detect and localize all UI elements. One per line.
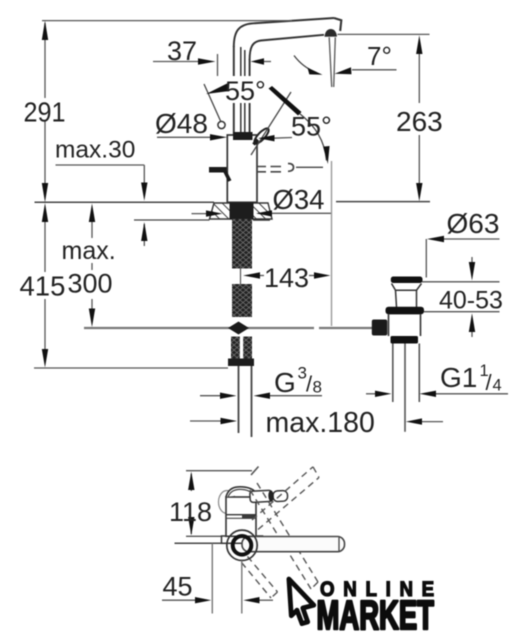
dimension 40-53	[422, 257, 500, 337]
dimension 45	[162, 599, 273, 601]
svg-text:45: 45	[163, 572, 193, 602]
threaded shank lower segment	[232, 284, 252, 317]
dimension 37	[153, 54, 271, 76]
dimension 143	[258, 275, 316, 277]
dimension max.180	[190, 420, 443, 423]
drain tailpipe	[392, 344, 394, 403]
side view shank extension lines	[212, 543, 242, 613]
svg-text:G: G	[274, 367, 296, 398]
svg-text:max.: max.	[62, 237, 116, 265]
dimension 291 (left vertical)	[42, 21, 292, 185]
faucet body (front view)	[227, 135, 257, 202]
svg-text:263: 263	[396, 106, 443, 137]
side view spout stub	[250, 489, 288, 503]
dimension Ø34	[192, 212, 333, 214]
mounting deck line (left part)	[35, 201, 215, 203]
base flange (hatched trapezoid)	[210, 203, 273, 220]
svg-text:8: 8	[313, 378, 322, 397]
short underside stub right of flange	[253, 219, 270, 221]
drain flange body	[392, 284, 422, 291]
side view handle hub rings	[227, 530, 257, 560]
dimension Ø63	[426, 239, 499, 278]
svg-text:4: 4	[493, 377, 502, 395]
cartridge cap dark band	[233, 132, 253, 140]
dimension G3/8	[200, 395, 322, 397]
supply hose nuts block	[231, 337, 252, 360]
tilted lever axis line 55 deg	[251, 92, 291, 155]
dimension 415 (left vertical lower)	[34, 221, 228, 368]
dashed handle lowered position (long)	[250, 483, 318, 589]
mounting deck line (right part)	[336, 201, 430, 203]
water stream direction lines	[329, 37, 335, 87]
svg-text:55°: 55°	[291, 112, 332, 142]
svg-text:37: 37	[167, 36, 197, 66]
counter underside line	[134, 219, 210, 221]
rod coupling knob on drain	[372, 320, 388, 336]
side view escutcheon plate	[186, 536, 263, 543]
svg-text:415: 415	[20, 271, 66, 302]
threaded shank upper segment	[232, 219, 252, 269]
dimension 263 (right vertical)	[338, 34, 430, 184]
lever handle (front view, left)	[209, 170, 230, 181]
svg-text:max.180: max.180	[266, 407, 375, 439]
logo text ONLINE	[320, 578, 443, 601]
shank bottom flange	[228, 359, 254, 367]
logo cursor arrow	[289, 579, 314, 624]
spout tip extension line	[331, 161, 333, 326]
svg-text:G1: G1	[440, 362, 477, 393]
svg-text:max.30: max.30	[55, 137, 135, 164]
shank break centerline	[240, 266, 242, 286]
svg-text:Ø34: Ø34	[273, 184, 325, 215]
dimension 118	[190, 474, 192, 534]
spout bend and horizontal spout	[234, 18, 341, 60]
svg-text:Ø48: Ø48	[155, 108, 208, 139]
svg-text:/: /	[486, 370, 493, 395]
dimension G1 1/4	[366, 393, 508, 395]
side view lever ball sketch (faint ellipse)	[219, 491, 236, 514]
dashed handle lowered position (short, from hub)	[242, 557, 278, 599]
drain body	[389, 314, 421, 336]
55 deg angle annotation (right, with arc)	[258, 114, 330, 165]
svg-text:Ø63: Ø63	[447, 208, 500, 239]
dashed handle raised position	[252, 467, 319, 530]
dimension Ø48 leader	[157, 136, 214, 138]
dimension max.30	[56, 165, 145, 246]
svg-text:7°: 7°	[367, 41, 392, 71]
svg-text:55°: 55°	[225, 76, 266, 106]
svg-text:300: 300	[68, 269, 113, 299]
aerator dome at spout tip	[325, 29, 338, 37]
dimension max.300	[91, 222, 93, 310]
drain rubber seal band	[386, 307, 425, 315]
label 291	[24, 96, 66, 128]
side view faucet body	[226, 487, 256, 536]
drain lock nut	[391, 336, 419, 344]
side view spout-height tick line	[186, 467, 259, 476]
lever pin slot (tilted ellipse)	[252, 126, 270, 145]
supply hoses	[239, 366, 252, 437]
svg-text:MARKET: MARKET	[317, 593, 434, 639]
55 deg angle annotation (top)	[204, 84, 302, 129]
spout riser pipe lines	[234, 46, 250, 135]
svg-text:143: 143	[264, 263, 309, 293]
rod coupling diamond on shank	[228, 322, 249, 335]
drain pop-up waste (right)	[372, 277, 424, 432]
cartridge dashes	[257, 164, 323, 172]
pop-up rod (horizontal)	[84, 327, 372, 329]
7 deg angle annotation	[294, 56, 397, 75]
side view handle bar	[242, 537, 345, 552]
drain top push plate	[391, 277, 423, 284]
svg-text:118: 118	[169, 497, 212, 527]
svg-text:40-53: 40-53	[439, 287, 503, 315]
side view deck line	[175, 542, 223, 544]
svg-text:291: 291	[24, 96, 66, 128]
logo text MARKET	[317, 593, 434, 639]
